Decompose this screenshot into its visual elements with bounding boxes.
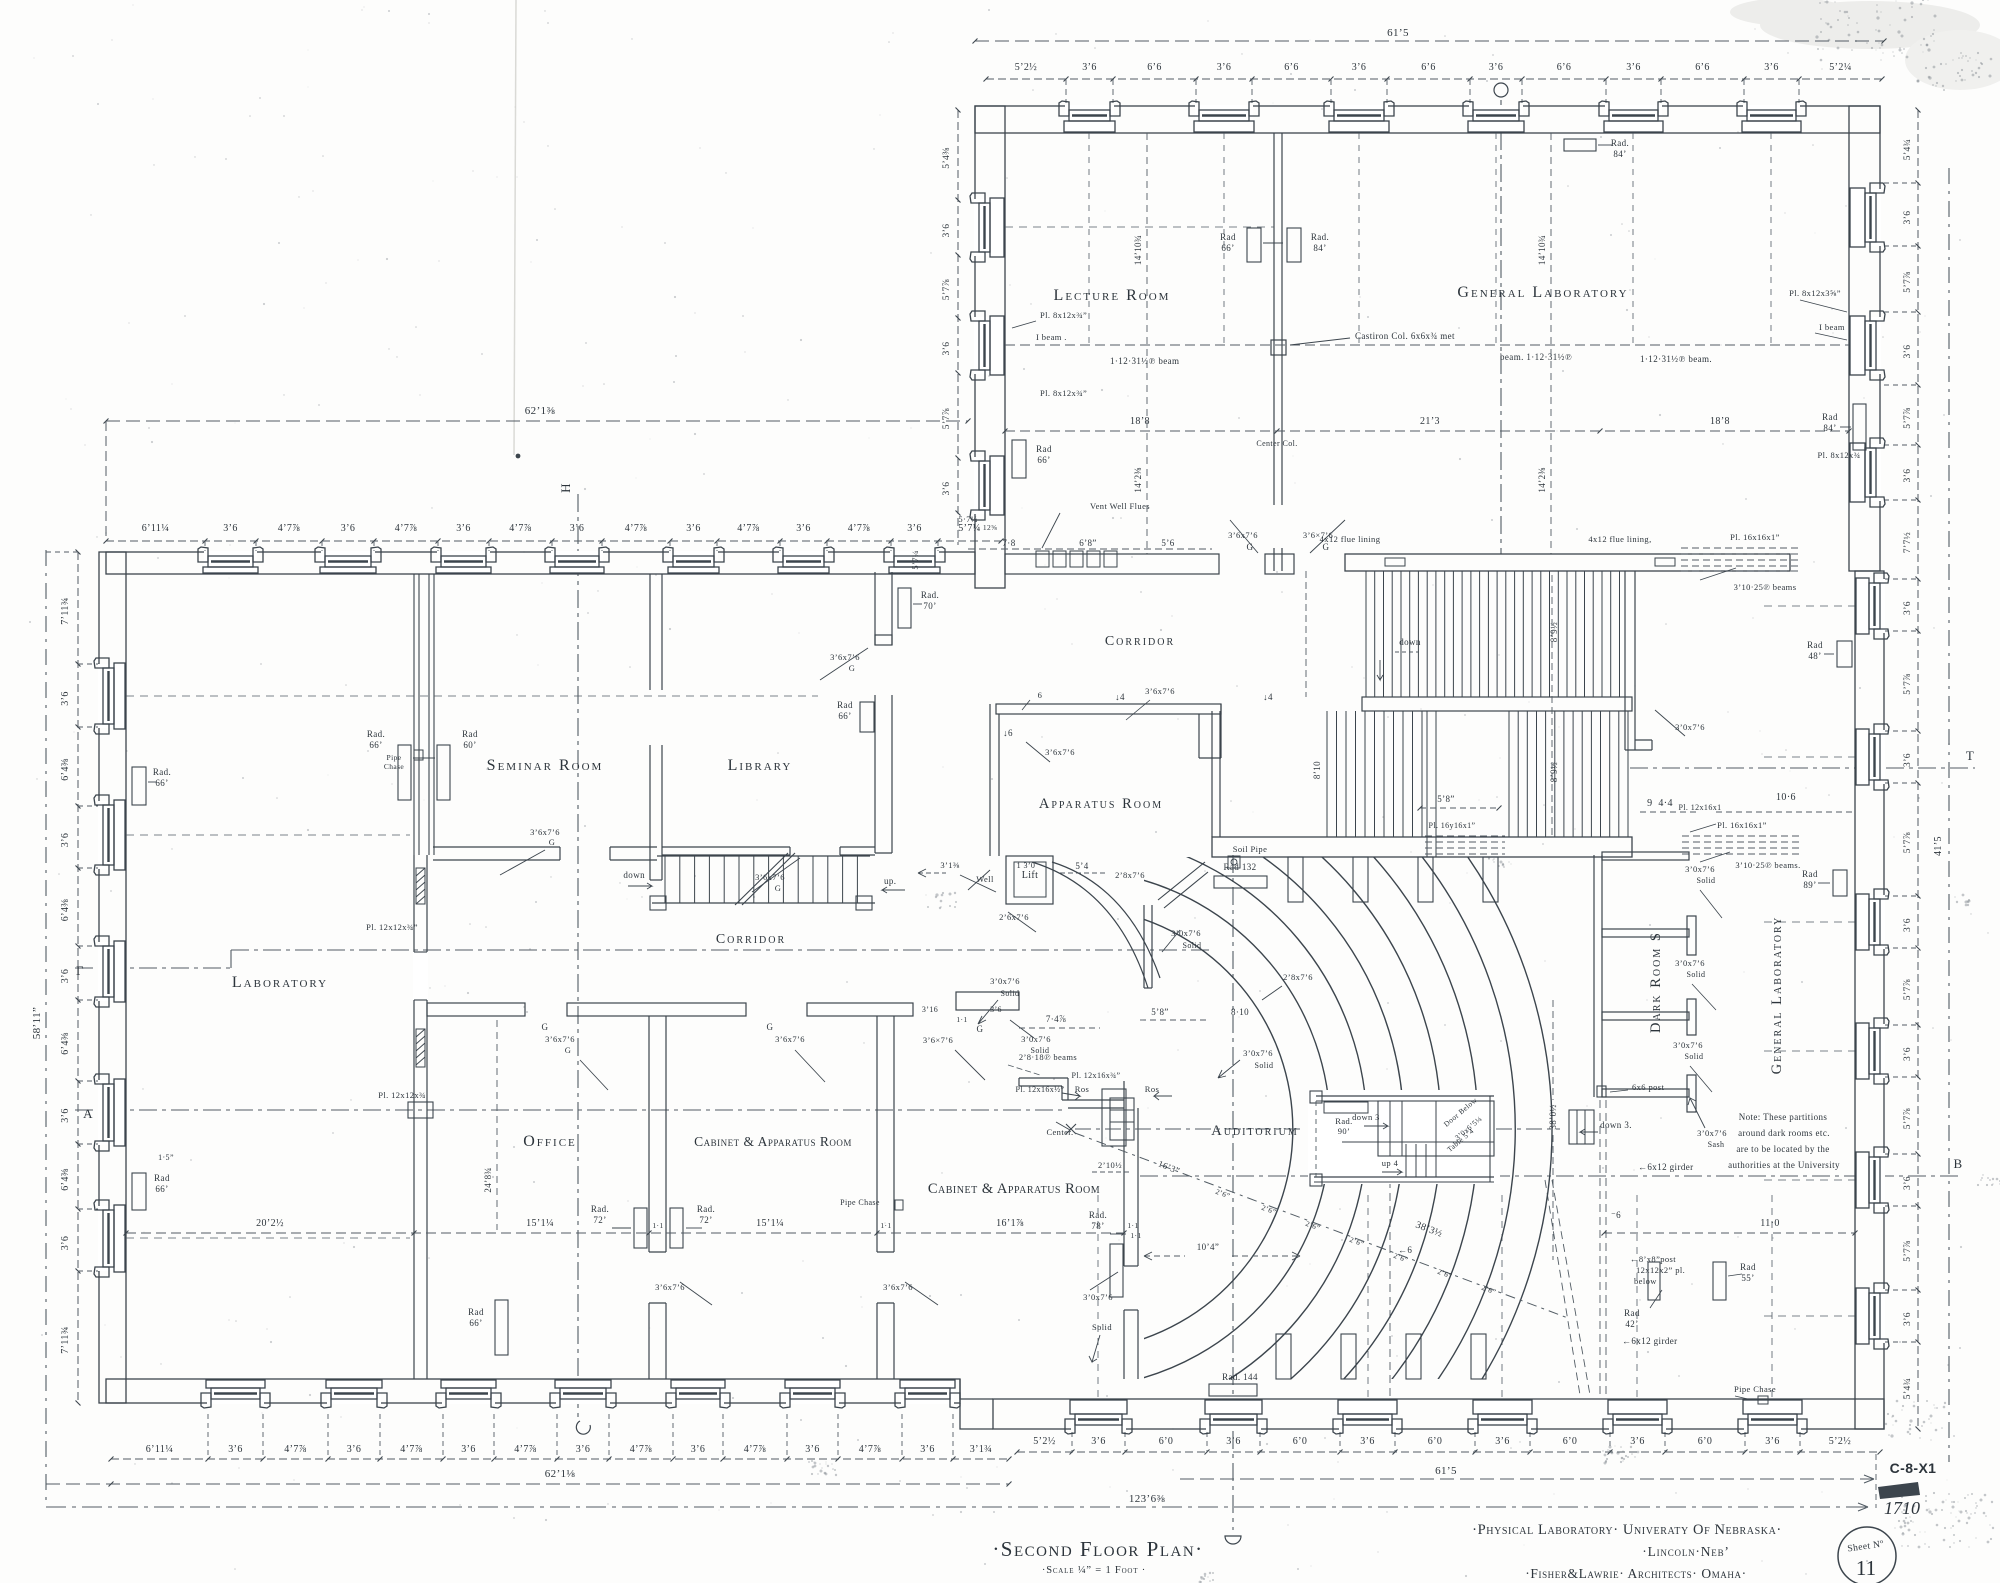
dims above auditorium: [1140, 1007, 1249, 1020]
svg-text:61’5: 61’5: [1435, 1465, 1457, 1477]
svg-text:3’6: 3’6: [1495, 1436, 1510, 1447]
svg-text:5’2½: 5’2½: [1015, 62, 1038, 73]
wing interior dimension row: [1003, 416, 1852, 448]
svg-text:Pl. 12x12x¾”: Pl. 12x12x¾”: [366, 922, 418, 932]
svg-text:6’8”: 6’8”: [1079, 538, 1097, 548]
svg-text:4x12 flue lining,: 4x12 flue lining,: [1588, 534, 1651, 544]
svg-text:3’6: 3’6: [347, 1444, 362, 1455]
title LINCOLN NEB: [1642, 1544, 1729, 1559]
svg-text:6’6: 6’6: [1695, 62, 1710, 73]
note text: [1728, 1112, 1840, 1170]
svg-text:10’4”: 10’4”: [1197, 1242, 1220, 1252]
svg-text:Pl. 8x12x¾: Pl. 8x12x¾: [1818, 450, 1861, 460]
radiator left wall upper: [132, 767, 171, 805]
svg-text:3’6: 3’6: [686, 523, 701, 534]
svg-text:Solid: Solid: [1092, 1322, 1112, 1332]
svg-text:6’11¼: 6’11¼: [142, 523, 170, 534]
svg-text:78’: 78’: [1091, 1221, 1104, 1231]
svg-text:7’11¾: 7’11¾: [60, 597, 71, 624]
lift shaft and well: [918, 856, 1105, 932]
svg-text:Solid: Solid: [1255, 1061, 1274, 1070]
svg-text:15’1¼: 15’1¼: [526, 1218, 554, 1229]
radiator left wall lower: [132, 1153, 174, 1210]
grand staircase: [1212, 554, 1855, 857]
main right wall with windows: [1855, 571, 1889, 1429]
svg-text:Rad: Rad: [462, 729, 478, 739]
svg-text:3’6x7’6: 3’6x7’6: [1045, 747, 1075, 757]
svg-text:14’10¾: 14’10¾: [1133, 235, 1143, 265]
svg-text:Pl. 8x12x3⅝”: Pl. 8x12x3⅝”: [1789, 288, 1841, 298]
svg-text:Ros: Ros: [1075, 1084, 1089, 1094]
svg-text:7’7½: 7’7½: [1902, 532, 1913, 553]
svg-text:8’9½: 8’9½: [1549, 762, 1559, 782]
section line B: [1140, 1156, 1963, 1176]
svg-text:70’: 70’: [923, 601, 936, 611]
auditorium central landing: [1308, 1090, 1500, 1186]
apparatus room door labels: [1003, 692, 1125, 762]
svg-text:3’0x7’6: 3’0x7’6: [1021, 1034, 1051, 1044]
svg-text:5’2½: 5’2½: [1829, 1436, 1852, 1447]
svg-text:up 4: up 4: [1382, 1158, 1399, 1168]
svg-text:down 3: down 3: [1352, 1112, 1380, 1122]
label GENERAL LABORATORY vertical: [1769, 916, 1785, 1075]
svg-text:4’7⅞: 4’7⅞: [737, 523, 760, 534]
svg-text:Center.: Center.: [1046, 1127, 1073, 1137]
svg-text:6’0: 6’0: [1698, 1436, 1713, 1447]
main bottom wall right with windows: [960, 1379, 1884, 1434]
svg-text:A: A: [83, 1106, 93, 1121]
partition seminar room / library: [650, 574, 662, 880]
bottom right dimension row: [1015, 1432, 1883, 1455]
svg-text:2’6”: 2’6”: [1214, 1187, 1231, 1201]
corridor south wall with door openings: [427, 992, 1019, 1090]
svg-text:3’6: 3’6: [570, 523, 585, 534]
svg-text:Vent Well Flues: Vent Well Flues: [1090, 501, 1150, 511]
svg-text:Pl. 16x16x1”: Pl. 16x16x1”: [1717, 820, 1767, 830]
svg-text:Rad: Rad: [1624, 1308, 1640, 1318]
library east wall: [820, 572, 892, 853]
svg-text:5·7¼: 5·7¼: [958, 514, 977, 524]
svg-text:3’0x7’6: 3’0x7’6: [1675, 958, 1705, 968]
room label LIBRARY: [728, 757, 793, 774]
svg-text:3’6: 3’6: [1626, 62, 1641, 73]
pipe chase bottom right: [1734, 1384, 1776, 1404]
svg-text:down: down: [1399, 637, 1421, 647]
svg-text:I beam: I beam: [1819, 322, 1845, 332]
svg-text:Well: Well: [976, 874, 994, 884]
auditorium axis and radius dimensions: [1075, 1000, 1568, 1318]
svg-text:Rad.: Rad.: [697, 1204, 715, 1214]
room label LABORATORY: [232, 974, 328, 991]
svg-text:3’6x7’6: 3’6x7’6: [775, 1034, 805, 1044]
right area dimension lines: [1098, 1180, 1858, 1399]
svg-text:Cabinet & Apparatus Room: Cabinet & Apparatus Room: [694, 1134, 852, 1149]
wing east wall with windows: [1849, 106, 1885, 571]
svg-text:20’2½: 20’2½: [256, 1218, 284, 1229]
svg-text:3’10·25℗ beams: 3’10·25℗ beams: [1734, 582, 1797, 592]
svg-text:12x12x2” pl.: 12x12x2” pl.: [1636, 1265, 1685, 1275]
svg-text:11·0: 11·0: [1760, 1218, 1780, 1229]
svg-text:60’: 60’: [463, 740, 476, 750]
radiator 78: [1089, 1210, 1142, 1297]
svg-text:up.: up.: [884, 876, 896, 886]
svg-text:3’6: 3’6: [796, 523, 811, 534]
sheet code C-8-X1 and 1710: [1876, 1454, 1936, 1518]
section line L through corridor: [75, 950, 1212, 978]
svg-text:6’0: 6’0: [1293, 1436, 1308, 1447]
svg-text:Rad.: Rad.: [1311, 232, 1329, 242]
svg-text:Rad.: Rad.: [1335, 1116, 1352, 1126]
seating row end steps: [1276, 857, 1498, 1379]
svg-text:1·1: 1·1: [652, 1221, 663, 1230]
auditorium seating arcs: [1110, 655, 1553, 1583]
sheet number circle: [1838, 1527, 1896, 1583]
svg-text:Rad.: Rad.: [367, 729, 385, 739]
svg-text:6’4⅜: 6’4⅜: [60, 1032, 71, 1055]
beam strip upper right: [1320, 532, 1800, 592]
left dimension column: [31, 550, 99, 1406]
vert dim at junction: [910, 550, 920, 569]
svg-text:6’6: 6’6: [1284, 62, 1299, 73]
svg-text:5’7⅞: 5’7⅞: [1903, 832, 1913, 853]
svg-text:5’7⅞: 5’7⅞: [1903, 271, 1913, 292]
room label CABINET APPARATUS 2: [928, 1181, 1100, 1197]
room label APPARATUS ROOM: [1039, 796, 1163, 812]
svg-text:1·1: 1·1: [956, 1015, 967, 1024]
svg-text:6’6: 6’6: [1147, 62, 1162, 73]
svg-text:3’6: 3’6: [805, 1444, 820, 1455]
dark rooms partitions: [1594, 852, 1727, 1149]
svg-text:around dark rooms etc.: around dark rooms etc.: [1738, 1128, 1830, 1138]
svg-text:7·4⅞: 7·4⅞: [1046, 1014, 1066, 1024]
upper corridor north wall with vent flues and doors: [1005, 501, 1345, 574]
svg-text:6’4⅜: 6’4⅜: [60, 899, 71, 922]
svg-text:4’7⅞: 4’7⅞: [514, 1444, 537, 1455]
svg-text:55’: 55’: [1741, 1273, 1754, 1283]
svg-text:G: G: [767, 1022, 774, 1032]
svg-text:3’0x7’6: 3’0x7’6: [1697, 1128, 1727, 1138]
svg-text:G: G: [565, 1045, 572, 1055]
svg-text:3’6: 3’6: [942, 342, 952, 356]
svg-text:3’6x7’6: 3’6x7’6: [1145, 686, 1175, 696]
svg-text:3’6: 3’6: [1082, 62, 1097, 73]
svg-text:5’4¾: 5’4¾: [1903, 1378, 1913, 1399]
svg-text:2’6”: 2’6”: [1348, 1235, 1365, 1249]
svg-text:4’7⅞: 4’7⅞: [284, 1444, 307, 1455]
svg-text:9 4·4: 9 4·4: [1647, 798, 1673, 809]
svg-text:61’5: 61’5: [1387, 27, 1409, 39]
svg-text:3’6: 3’6: [990, 1005, 1002, 1014]
svg-text:3’6: 3’6: [1903, 601, 1913, 615]
svg-text:B: B: [1953, 1156, 1962, 1171]
svg-text:3’6: 3’6: [1903, 753, 1913, 767]
svg-text:3’6: 3’6: [1903, 345, 1913, 359]
svg-text:5’8”: 5’8”: [1151, 1007, 1169, 1017]
svg-text:3’6: 3’6: [456, 523, 471, 534]
svg-text:66’: 66’: [155, 778, 168, 788]
svg-text:48’: 48’: [1808, 651, 1821, 661]
svg-text:below: below: [1634, 1276, 1657, 1286]
svg-text:G: G: [775, 883, 782, 893]
svg-text:H: H: [558, 483, 573, 493]
right dimension column: [1764, 108, 1944, 1432]
library south wall: [662, 847, 875, 893]
svg-text:Rad. 144: Rad. 144: [1222, 1372, 1258, 1382]
svg-text:Rad: Rad: [1802, 869, 1818, 879]
room label CORRIDOR upper: [1105, 634, 1175, 649]
svg-text:3’6: 3’6: [1903, 1047, 1913, 1061]
radiator wing left: [1012, 440, 1052, 478]
svg-text:10·6: 10·6: [1776, 792, 1796, 803]
svg-text:Lecture Room: Lecture Room: [1054, 287, 1171, 304]
svg-text:66’: 66’: [1037, 455, 1050, 465]
svg-text:5’4: 5’4: [1075, 861, 1088, 871]
svg-text:3’6: 3’6: [223, 523, 238, 534]
title PHYSICAL LABORATORY: [1472, 1522, 1782, 1538]
svg-text:62’1⅜: 62’1⅜: [525, 405, 556, 417]
svg-text:·Fisher&Lawrie· Architects· Om: ·Fisher&Lawrie· Architects· Omaha·: [1525, 1566, 1746, 1581]
svg-text:2’6x7’6: 2’6x7’6: [999, 912, 1029, 922]
radiators at seminar west wall: [367, 729, 478, 800]
svg-text:15’1¼: 15’1¼: [756, 1218, 784, 1229]
svg-text:Cabinet & Apparatus Room: Cabinet & Apparatus Room: [928, 1181, 1100, 1197]
svg-text:beam. 1·12·31½℗: beam. 1·12·31½℗: [1500, 352, 1572, 362]
svg-text:72’: 72’: [593, 1215, 606, 1225]
svg-text:Rad: Rad: [1036, 444, 1052, 454]
svg-text:6’6: 6’6: [1421, 62, 1436, 73]
svg-text:I beam .: I beam .: [1036, 332, 1067, 342]
svg-text:14’2⅜: 14’2⅜: [1537, 467, 1547, 492]
office depth dimension: [483, 1020, 497, 1230]
svg-text:84’: 84’: [1613, 149, 1626, 159]
label DARK ROOMS: [1648, 931, 1664, 1033]
partition between lecture room and general laboratory: [1271, 133, 1286, 571]
section line D vertical: [1225, 855, 1241, 1544]
svg-text:5’4⅜: 5’4⅜: [942, 147, 952, 168]
auditorium west door labels: [1032, 862, 1313, 1078]
svg-text:3’6: 3’6: [942, 482, 952, 496]
svg-text:4x12 flue lining: 4x12 flue lining: [1320, 534, 1381, 544]
svg-text:3’0x7’6: 3’0x7’6: [1685, 864, 1715, 874]
svg-text:1·1: 1·1: [880, 1221, 891, 1230]
svg-text:38’0½: 38’0½: [1548, 1104, 1558, 1129]
laboratory east wall with flues: [366, 574, 434, 1379]
svg-text:2’8x7’6: 2’8x7’6: [1283, 972, 1313, 982]
auditorium north-west doors: [1115, 862, 1208, 988]
svg-text:89’: 89’: [1803, 880, 1816, 890]
section line A: [75, 1106, 1065, 1121]
svg-text:16’3”: 16’3”: [1157, 1158, 1182, 1175]
svg-text:G: G: [549, 837, 556, 847]
beam strip at stair foot: [1425, 821, 1505, 854]
svg-text:Solid: Solid: [1687, 970, 1706, 979]
svg-text:Rad: Rad: [1740, 1262, 1756, 1272]
svg-text:5’7⅞: 5’7⅞: [1903, 407, 1913, 428]
svg-text:Dark Room S: Dark Room S: [1648, 931, 1664, 1033]
svg-text:Ros: Ros: [1145, 1084, 1159, 1094]
radiator 144: [1209, 1372, 1258, 1396]
wing vertical dimension lines: [1133, 133, 1551, 554]
svg-text:12⅝: 12⅝: [983, 523, 997, 532]
svg-text:Pl. 12x16x½”: Pl. 12x16x½”: [1015, 1085, 1064, 1094]
svg-text:3’6: 3’6: [60, 691, 71, 706]
svg-text:↓6: ↓6: [1003, 728, 1013, 738]
svg-text:3’6: 3’6: [942, 224, 952, 238]
svg-text:Sash: Sash: [1708, 1140, 1725, 1149]
svg-text:↓4: ↓4: [1115, 692, 1125, 702]
room label LECTURE ROOM: [1054, 287, 1171, 304]
svg-text:←6x12 girder: ←6x12 girder: [1622, 1336, 1678, 1346]
svg-text:1710: 1710: [1884, 1498, 1920, 1518]
svg-text:3’6x7’6: 3’6x7’6: [655, 1282, 685, 1292]
auditorium west wall and rostrum: [1046, 1081, 1172, 1379]
svg-text:Pipe Chase: Pipe Chase: [1734, 1384, 1776, 1394]
svg-text:6’0: 6’0: [1563, 1436, 1578, 1447]
svg-text:3’6: 3’6: [1630, 1436, 1645, 1447]
svg-text:11: 11: [1856, 1556, 1876, 1580]
svg-text:66’: 66’: [369, 740, 382, 750]
svg-text:3’6: 3’6: [1903, 1312, 1913, 1326]
svg-text:5’7⅞: 5’7⅞: [1903, 979, 1913, 1000]
radiator wing top right: [1564, 138, 1629, 159]
svg-text:Pl. 16y16x1”: Pl. 16y16x1”: [1428, 821, 1475, 830]
svg-text:Soil Pipe: Soil Pipe: [1233, 844, 1268, 854]
svg-text:Pipe Chase: Pipe Chase: [840, 1198, 880, 1207]
svg-text:Pl. 12x12x¾: Pl. 12x12x¾: [378, 1090, 426, 1100]
wing beam center line: [1005, 331, 1849, 366]
svg-text:3’6: 3’6: [1764, 62, 1779, 73]
small dims near cabinet2: [922, 1005, 1100, 1028]
title SECOND FLOOR PLAN: [992, 1537, 1203, 1561]
svg-text:Castiron Col. 6x6x¾ met: Castiron Col. 6x6x¾ met: [1355, 331, 1455, 341]
svg-text:Pl. 16x16x1”: Pl. 16x16x1”: [1730, 532, 1780, 542]
svg-text:Corridor: Corridor: [716, 932, 786, 947]
svg-text:1·1: 1·1: [1127, 1221, 1138, 1230]
svg-text:Chase: Chase: [384, 762, 405, 771]
svg-text:3’6: 3’6: [920, 1444, 935, 1455]
svg-text:Laboratory: Laboratory: [232, 974, 328, 991]
svg-text:3’6x7’6: 3’6x7’6: [545, 1034, 575, 1044]
svg-text:Solid: Solid: [1685, 1052, 1704, 1061]
stepped wall north of cabinet and apparatus room: [1019, 1078, 1124, 1108]
svg-text:3’6: 3’6: [1903, 918, 1913, 932]
svg-text:72’: 72’: [699, 1215, 712, 1225]
room label OFFICE: [523, 1133, 577, 1150]
svg-text:Solid: Solid: [1697, 876, 1716, 885]
room label GENERAL LABORATORY: [1457, 284, 1628, 301]
main bottom wall left with windows: [106, 1379, 960, 1408]
svg-text:⁻6: ⁻6: [1611, 1210, 1621, 1220]
svg-text:Center Col.: Center Col.: [1256, 439, 1297, 448]
svg-text:3’16: 3’16: [922, 1005, 938, 1014]
title scale note: [1042, 1565, 1146, 1576]
svg-text:3’1¾: 3’1¾: [970, 1444, 992, 1455]
svg-text:3’6: 3’6: [341, 523, 356, 534]
svg-text:Lift: Lift: [1022, 870, 1039, 881]
svg-text:7·8: 7·8: [1002, 538, 1015, 548]
svg-text:down 3.: down 3.: [1600, 1120, 1632, 1130]
left wall window center lines: [126, 696, 818, 1238]
dims near wing junction: [958, 514, 1212, 549]
svg-text:↓4: ↓4: [1263, 692, 1273, 702]
svg-text:Pl. 12x16x¾”: Pl. 12x16x¾”: [1071, 1071, 1120, 1080]
svg-text:3’6: 3’6: [1903, 211, 1913, 225]
section line T: [1630, 748, 1975, 768]
main top dimension row: [104, 523, 1004, 552]
svg-text:Apparatus Room: Apparatus Room: [1039, 796, 1163, 812]
svg-text:·Second Floor Plan·: ·Second Floor Plan·: [992, 1537, 1203, 1561]
radiator right wall upper: [1807, 640, 1852, 667]
room label CORRIDOR lower: [716, 932, 786, 947]
svg-text:24’8¾: 24’8¾: [483, 1167, 493, 1192]
svg-text:3’6: 3’6: [461, 1444, 476, 1455]
svg-text:·Physical Laboratory· Univerat: ·Physical Laboratory· Univeraty Of Nebra…: [1472, 1522, 1782, 1538]
svg-text:2’8x7’6: 2’8x7’6: [1115, 870, 1145, 880]
svg-text:21’3: 21’3: [1420, 416, 1440, 427]
section line H-G vertical: [558, 483, 590, 1434]
svg-text:Rad.: Rad.: [153, 767, 171, 777]
svg-text:Rad.: Rad.: [591, 1204, 609, 1214]
svg-text:90’: 90’: [1338, 1126, 1351, 1136]
svg-text:5’6: 5’6: [1161, 538, 1174, 548]
svg-text:2’6”: 2’6”: [1260, 1203, 1277, 1217]
svg-text:3’6: 3’6: [1352, 62, 1367, 73]
room label SEMINAR ROOM: [487, 757, 604, 774]
svg-text:62’1⅛: 62’1⅛: [545, 1468, 576, 1480]
wing left wall beam notes: [1012, 310, 1087, 398]
main left wall with windows: [94, 552, 126, 1403]
svg-text:Note: These partitions: Note: These partitions: [1739, 1112, 1828, 1122]
svg-text:G: G: [977, 1024, 984, 1034]
seminar room south wall: [433, 827, 657, 875]
svg-text:Auditorium: Auditorium: [1211, 1123, 1299, 1139]
svg-text:6: 6: [1038, 690, 1043, 700]
radiator right wall mid: [1802, 869, 1847, 896]
svg-text:3’6: 3’6: [1903, 1176, 1913, 1190]
svg-text:58’11”: 58’11”: [31, 1007, 43, 1040]
svg-text:Seminar Room: Seminar Room: [487, 757, 604, 774]
svg-text:3’6: 3’6: [228, 1444, 243, 1455]
svg-text:2’6”: 2’6”: [1436, 1267, 1453, 1281]
svg-text:3’0x7’6: 3’0x7’6: [1171, 928, 1201, 938]
exit stair and girders: [1545, 1100, 1694, 1395]
partition office / cabinet room with radiators: [591, 1016, 715, 1379]
svg-text:G: G: [542, 1022, 549, 1032]
svg-text:T: T: [1966, 748, 1974, 763]
svg-text:3’6: 3’6: [1489, 62, 1504, 73]
svg-text:3’0x7’6: 3’0x7’6: [1675, 722, 1705, 732]
svg-text:Solid: Solid: [1031, 1046, 1050, 1055]
svg-text:Rad: Rad: [837, 700, 853, 710]
partition cabinet rooms with pipe chase: [840, 1016, 938, 1379]
radiator wing right: [1822, 404, 1866, 450]
svg-text:5’2¼: 5’2¼: [1829, 62, 1852, 73]
svg-text:66’: 66’: [469, 1318, 482, 1328]
room label AUDITORIUM: [1211, 1123, 1299, 1139]
radiator library east: [837, 700, 874, 732]
svg-text:3’6: 3’6: [1360, 1436, 1375, 1447]
svg-text:4’7⅞: 4’7⅞: [848, 523, 871, 534]
svg-text:66’: 66’: [155, 1184, 168, 1194]
svg-text:5’7¼: 5’7¼: [910, 550, 920, 569]
svg-text:3’6: 3’6: [691, 1444, 706, 1455]
svg-text:66’: 66’: [838, 711, 851, 721]
svg-text:General Laboratory: General Laboratory: [1457, 284, 1628, 301]
svg-text:←6x12 girder: ←6x12 girder: [1638, 1162, 1694, 1172]
svg-text:2’10½: 2’10½: [1098, 1160, 1122, 1170]
svg-text:3’6: 3’6: [1091, 1436, 1106, 1447]
svg-text:66’: 66’: [1221, 243, 1234, 253]
